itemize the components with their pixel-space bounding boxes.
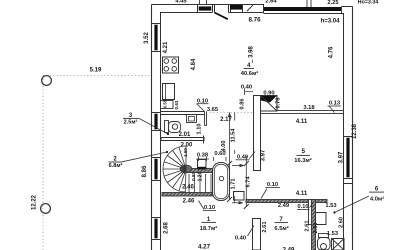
svg-text:2.49: 2.49: [278, 203, 290, 209]
svg-text:8.86: 8.86: [142, 165, 148, 177]
svg-text:2.61: 2.61: [305, 220, 311, 232]
svg-text:2.60: 2.60: [339, 217, 345, 228]
svg-text:2.5м²: 2.5м²: [124, 119, 138, 126]
svg-text:4.11: 4.11: [296, 191, 308, 197]
svg-text:3.65: 3.65: [207, 107, 219, 113]
svg-text:h=3.04: h=3.04: [321, 18, 341, 24]
svg-text:8.76: 8.76: [248, 17, 261, 24]
svg-text:4.21: 4.21: [163, 41, 169, 53]
svg-text:2.61: 2.61: [262, 221, 268, 233]
svg-text:11.54: 11.54: [231, 128, 237, 143]
svg-text:4.45: 4.45: [175, 0, 187, 4]
svg-text:40.6м²: 40.6м²: [241, 70, 259, 77]
svg-text:4.0м²: 4.0м²: [370, 195, 384, 202]
svg-text:4.00: 4.00: [221, 141, 227, 152]
svg-text:4.11: 4.11: [296, 119, 308, 125]
svg-text:3.18: 3.18: [303, 105, 315, 111]
svg-text:3.52: 3.52: [144, 32, 150, 44]
svg-text:5.19: 5.19: [90, 68, 102, 74]
svg-text:2.01: 2.01: [179, 132, 191, 138]
svg-text:1.10: 1.10: [197, 124, 203, 135]
svg-text:2.64: 2.64: [265, 0, 277, 4]
svg-text:2.60: 2.60: [313, 223, 319, 234]
svg-text:0.60: 0.60: [214, 151, 225, 157]
svg-text:0.63: 0.63: [174, 100, 179, 109]
svg-text:Но=3.34: Но=3.34: [358, 0, 379, 6]
svg-text:4.84: 4.84: [191, 58, 197, 70]
svg-text:18.7м²: 18.7м²: [200, 225, 218, 232]
svg-text:6.74: 6.74: [245, 176, 251, 188]
svg-text:4.27: 4.27: [198, 244, 211, 250]
svg-text:6.8м²: 6.8м²: [109, 162, 123, 169]
svg-text:0.38: 0.38: [197, 152, 209, 158]
svg-text:12.22: 12.22: [32, 194, 38, 210]
svg-text:0.97: 0.97: [191, 172, 196, 181]
svg-text:0.40: 0.40: [235, 236, 246, 242]
svg-text:0.90: 0.90: [263, 90, 274, 96]
svg-text:1.53: 1.53: [327, 231, 339, 237]
svg-text:16.3м²: 16.3м²: [294, 157, 312, 164]
svg-text:0.40: 0.40: [241, 84, 252, 90]
svg-text:2.46: 2.46: [182, 185, 194, 191]
svg-text:1.53: 1.53: [325, 203, 337, 209]
svg-text:1.71: 1.71: [231, 179, 237, 190]
svg-text:0.78: 0.78: [276, 98, 282, 109]
svg-text:2.00: 2.00: [181, 142, 193, 148]
svg-text:2.46: 2.46: [183, 199, 195, 205]
svg-text:0.55: 0.55: [163, 99, 168, 108]
svg-text:0.86: 0.86: [240, 99, 246, 110]
svg-text:3.97: 3.97: [261, 149, 267, 161]
svg-text:2.25: 2.25: [327, 0, 339, 6]
svg-text:3.98: 3.98: [248, 46, 254, 58]
svg-text:1.20: 1.20: [198, 171, 204, 181]
svg-text:3.97: 3.97: [339, 151, 345, 163]
svg-text:2.17: 2.17: [220, 117, 232, 123]
svg-text:12.38: 12.38: [352, 123, 358, 139]
svg-text:1.50: 1.50: [183, 148, 188, 157]
svg-text:2.68: 2.68: [164, 222, 170, 234]
svg-text:6.5м²: 6.5м²: [274, 225, 288, 232]
svg-text:4.76: 4.76: [329, 46, 335, 58]
